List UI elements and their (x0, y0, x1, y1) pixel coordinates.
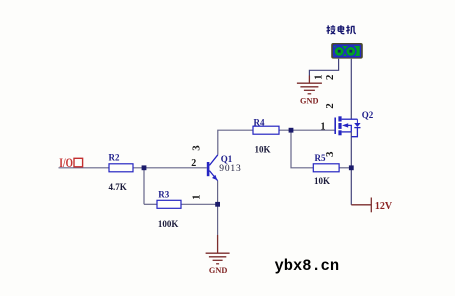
svg-text:2: 2 (324, 74, 336, 80)
svg-text:100K: 100K (158, 219, 179, 229)
svg-text:3: 3 (324, 151, 336, 157)
svg-text:Q2: Q2 (362, 110, 374, 120)
svg-text:1: 1 (321, 122, 326, 133)
svg-text:R3: R3 (158, 189, 169, 199)
svg-text:2: 2 (324, 103, 336, 109)
svg-text:R2: R2 (109, 152, 120, 162)
svg-text:1: 1 (312, 74, 324, 80)
svg-text:9013: 9013 (219, 164, 241, 174)
svg-text:R4: R4 (254, 117, 265, 127)
svg-text:GND: GND (209, 266, 227, 275)
svg-text:10K: 10K (314, 176, 330, 186)
svg-text:Q1: Q1 (221, 154, 233, 164)
svg-text:ybx8.cn: ybx8.cn (275, 257, 340, 275)
svg-text:10K: 10K (255, 144, 271, 154)
svg-text:3: 3 (191, 145, 203, 151)
svg-text:12V: 12V (375, 201, 393, 212)
svg-text:4.7K: 4.7K (109, 182, 127, 192)
svg-text:1: 1 (190, 194, 202, 200)
svg-text:I/O: I/O (59, 155, 73, 170)
svg-text:2: 2 (191, 158, 196, 169)
svg-text:GND: GND (300, 97, 318, 106)
